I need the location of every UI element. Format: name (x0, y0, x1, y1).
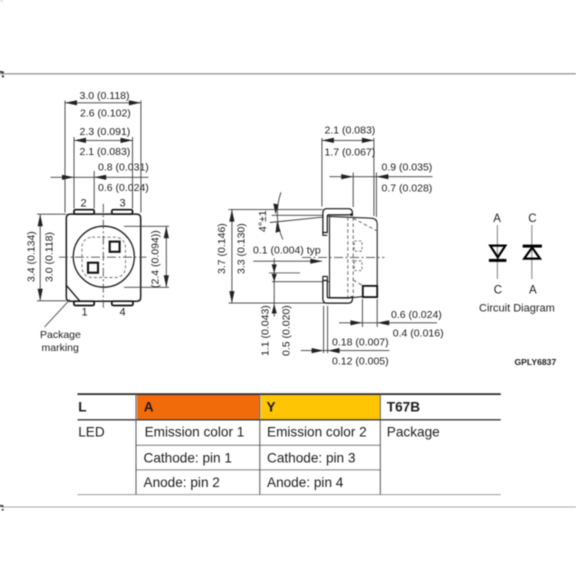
svg-text:LED: LED (78, 424, 105, 439)
reflector dashed outline (82, 237, 126, 277)
table top border (78, 393, 501, 395)
hidden dashed chip upper (354, 241, 362, 251)
package body top view (66, 214, 140, 301)
dim line 2.4 vertical (165, 226, 167, 287)
centerline vertical top view (102, 204, 104, 308)
svg-text:Package: Package (40, 329, 81, 341)
dim 0.18/0.12 extensions (323, 306, 325, 353)
svg-text:3.0 (0.118): 3.0 (0.118) (80, 90, 130, 102)
hidden dashed diagonal top (353, 218, 376, 230)
chip square bottom-left (88, 263, 98, 273)
extension 0.9 right (375, 173, 377, 218)
page rule bottom (0, 505, 576, 511)
hidden dashed chip lower (354, 261, 362, 271)
pad pin3 (112, 210, 133, 214)
angle arrow upper (273, 204, 278, 215)
svg-text:0.18 (0.007): 0.18 (0.007) (332, 337, 389, 349)
svg-text:0.12 (0.005): 0.12 (0.005) (332, 356, 389, 368)
table header fill Y yellow (261, 395, 380, 420)
tick seating plane (229, 302, 333, 304)
svg-text:0.6 (0.024): 0.6 (0.024) (98, 182, 149, 194)
dim line 0.8/0.6 (51, 176, 149, 178)
dim 3.7/3.3: tick top (229, 209, 323, 211)
svg-text:0.8 (0.031): 0.8 (0.031) (98, 162, 149, 174)
corner artifact mark (0, 0, 3, 2)
svg-text:A: A (493, 213, 501, 225)
table row line 2 (136, 444, 380, 446)
dim line 1.1/0.5 vertical (273, 259, 275, 317)
lens circle (73, 226, 134, 287)
table header fill A orange (137, 395, 259, 420)
extension line pad2 right (93, 171, 95, 209)
wire diode 1 (496, 225, 498, 279)
angle reference horizontal line (272, 214, 330, 216)
svg-text:(2.4 (0.094)): (2.4 (0.094)) (150, 230, 162, 288)
svg-text:0.9 (0.035): 0.9 (0.035) (382, 162, 433, 174)
angle arrow lower (276, 222, 281, 233)
svg-text:Anode: pin 2: Anode: pin 2 (144, 475, 220, 490)
svg-text:3.4 (0.134): 3.4 (0.134) (26, 231, 38, 282)
table row line 3 (136, 469, 380, 471)
pin1 chamfer marking (66, 285, 80, 301)
diode D1 triangle (490, 246, 505, 258)
svg-text:2.3 (0.091): 2.3 (0.091) (80, 126, 131, 138)
extension left 2.1 (321, 138, 323, 207)
angle arc 4 deg (277, 192, 283, 239)
hidden dashed diagonal bottom (353, 280, 363, 285)
svg-text:2.1 (0.083): 2.1 (0.083) (325, 124, 376, 136)
dim line 0.18/0.12 (301, 350, 390, 352)
svg-text:0.1 (0.004) typ: 0.1 (0.004) typ (253, 245, 321, 257)
centerline horizontal top view (59, 256, 147, 258)
svg-text:1: 1 (82, 307, 88, 319)
angle reference slanted line (270, 216, 330, 222)
extension line right 2.3 (132, 137, 134, 209)
extension 0.9 left (352, 173, 354, 208)
extension line left 2.3 (73, 137, 75, 209)
svg-text:Cathode: pin 3: Cathode: pin 3 (267, 451, 355, 466)
dim line 2.1 side (322, 139, 374, 141)
lead top J-bend (323, 209, 353, 233)
svg-text:4: 4 (120, 307, 126, 319)
dim line 0.6/0.4 (339, 322, 437, 324)
pad pin1 (74, 301, 94, 305)
svg-text:0.7 (0.028): 0.7 (0.028) (382, 183, 433, 195)
dim 0.6/0.4 extensions (361, 299, 363, 327)
lead bottom J-bend (323, 281, 353, 304)
svg-text:3.0 (0.118): 3.0 (0.118) (44, 232, 56, 282)
table divider Y|T67B (379, 394, 381, 495)
table header bottom border (78, 419, 501, 421)
pad pin2 (74, 210, 94, 214)
svg-text:Package: Package (387, 424, 440, 439)
svg-text:Y: Y (267, 399, 276, 414)
hidden dashed vertical right (352, 217, 354, 297)
svg-text:marking: marking (42, 342, 80, 354)
dim line 3.0 top (65, 102, 141, 104)
opposing arrow 0.1 typ (330, 260, 346, 262)
table divider L|A (135, 394, 137, 495)
svg-text:T67B: T67B (387, 399, 420, 414)
svg-text:Emission color 1: Emission color 1 (145, 424, 245, 439)
chip square top-right (110, 242, 120, 252)
svg-text:2.1 (0.083): 2.1 (0.083) (80, 146, 131, 158)
svg-text:Cathode: pin 1: Cathode: pin 1 (144, 451, 232, 466)
dim line 0.9/0.7 (329, 176, 432, 178)
svg-text:C: C (528, 213, 536, 225)
lead top notch (323, 232, 327, 236)
dim line 0.1 typ with right arrow (253, 260, 322, 262)
dim 1.1/0.5 ticks (269, 272, 300, 274)
svg-text:A: A (529, 285, 537, 297)
table divider A|Y (259, 394, 261, 495)
svg-text:0.6 (0.024): 0.6 (0.024) (391, 309, 442, 321)
table bottom border (78, 494, 501, 496)
svg-text:2: 2 (81, 198, 87, 210)
svg-text:3.7 (0.146): 3.7 (0.146) (216, 223, 228, 274)
svg-text:Circuit Diagram: Circuit Diagram (479, 303, 555, 315)
dim line 3.7 vertical (231, 210, 233, 304)
extension line left 3.0 (64, 101, 66, 213)
dim line 3.4 vertical (39, 214, 41, 301)
svg-text:3.3 (0.130): 3.3 (0.130) (236, 223, 248, 274)
wire diode 2 (531, 225, 533, 279)
diode D2 triangle (524, 248, 540, 259)
svg-text:A: A (144, 399, 154, 414)
centerline side view (302, 256, 385, 258)
svg-text:GPLY6837: GPLY6837 (515, 357, 557, 367)
svg-text:3: 3 (120, 198, 126, 210)
extension right 2.1 (373, 138, 375, 216)
page rule top (0, 71, 576, 78)
svg-text:4°±1: 4°±1 (257, 210, 269, 232)
svg-text:Emission color 2: Emission color 2 (267, 424, 367, 439)
svg-text:1.7 (0.067): 1.7 (0.067) (325, 147, 376, 159)
lead stub bottom right (363, 286, 377, 297)
extension line right 3.0 (140, 101, 142, 213)
diode D1 cathode bar (489, 259, 507, 262)
diode D2 cathode bar (523, 245, 542, 248)
svg-text:L: L (78, 399, 86, 414)
svg-text:0.5 (0.020): 0.5 (0.020) (281, 305, 293, 356)
svg-text:0.4 (0.016): 0.4 (0.016) (393, 328, 444, 340)
leader line package marking (45, 300, 71, 328)
svg-text:1.1 (0.043): 1.1 (0.043) (260, 305, 272, 356)
side view body outline (330, 216, 378, 297)
dim line 2.3 (74, 139, 133, 141)
svg-text:C: C (494, 285, 502, 297)
pad pin4 (112, 301, 133, 305)
lead bottom notch (323, 276, 327, 281)
dim 3.4 left: ticks (37, 213, 66, 215)
hidden dashed vertical left (347, 217, 349, 297)
svg-text:2.6 (0.102): 2.6 (0.102) (80, 108, 131, 120)
dim 2.4 right: ticks (124, 225, 169, 227)
svg-text:Anode: pin 4: Anode: pin 4 (267, 475, 344, 490)
